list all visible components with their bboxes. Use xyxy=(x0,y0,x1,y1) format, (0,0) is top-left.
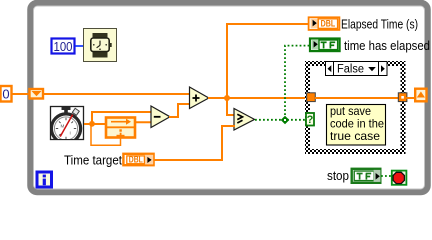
wire stopwatch to divide box xyxy=(84,123,107,125)
indicator Elapsed Time DBL xyxy=(309,17,340,30)
indicator time has elapsed TF xyxy=(310,39,340,52)
svg-text:Elapsed Time (s): Elapsed Time (s) xyxy=(341,17,418,32)
wire add output to case tunnel xyxy=(208,97,308,99)
iteration terminal i xyxy=(37,172,52,187)
wire blue 100 to wait xyxy=(76,45,85,47)
svg-text:I: I xyxy=(70,131,71,136)
feedback divide node xyxy=(106,118,135,138)
wire tunnel to right shift register xyxy=(407,97,417,99)
svg-text:DBL: DBL xyxy=(129,155,143,165)
svg-text:DBL: DBL xyxy=(321,19,336,30)
wire time target to greater-equal bottom input xyxy=(154,126,235,160)
case structure border xyxy=(305,61,406,154)
svg-text:Time target: Time target xyxy=(64,153,122,168)
svg-text:stop: stop xyxy=(327,168,349,183)
junction diamond boolean xyxy=(281,116,290,125)
svg-text:true case: true case xyxy=(330,129,380,143)
wire inside case xyxy=(315,97,399,99)
shift register left xyxy=(30,89,44,99)
case selector terminal ? xyxy=(306,113,314,126)
control Time target DBL xyxy=(123,154,153,165)
subtract node xyxy=(151,106,170,128)
svg-text:time has elapsed: time has elapsed xyxy=(344,38,430,53)
add node xyxy=(190,87,209,109)
wire branch down under to divide box bottom xyxy=(91,124,121,145)
svg-text:0: 0 xyxy=(2,87,9,102)
control stop TF xyxy=(352,169,381,183)
wire 0 to shift register xyxy=(12,93,30,95)
wire branch up to subtract top input xyxy=(92,112,152,124)
tunnel output on case right border xyxy=(398,93,407,102)
wire greater-equal output dotted xyxy=(255,119,306,121)
while loop border xyxy=(31,3,428,192)
junction dot add output xyxy=(224,95,230,101)
tick count (stopwatch icon) xyxy=(51,107,84,144)
wire branch down to greater-equal top input xyxy=(227,98,235,115)
wire branch up to elapsed time indicator xyxy=(227,24,309,98)
wire subtract to add bottom input xyxy=(169,104,190,117)
loop condition stop button xyxy=(392,171,407,185)
constant 100 xyxy=(52,39,75,55)
wait ms function (wristwatch icon) xyxy=(84,29,117,62)
wire divide box to subtract bottom input xyxy=(135,121,152,123)
sticky note comment xyxy=(327,104,386,145)
svg-text:M: M xyxy=(61,124,65,129)
constant 0 xyxy=(1,86,12,102)
wire boolean up to time has elapsed xyxy=(285,46,310,119)
svg-text:False: False xyxy=(337,63,364,75)
svg-text:100: 100 xyxy=(54,39,73,54)
junction dot stopwatch fanout xyxy=(89,121,95,127)
wire stop to loop condition dotted xyxy=(381,175,391,177)
greater or equal node xyxy=(234,109,255,131)
wire shift register to add node xyxy=(43,93,190,95)
case selector label False xyxy=(326,62,388,76)
tunnel input on case left border xyxy=(307,93,316,102)
shift register right xyxy=(415,89,426,102)
svg-text:?: ? xyxy=(307,114,314,126)
